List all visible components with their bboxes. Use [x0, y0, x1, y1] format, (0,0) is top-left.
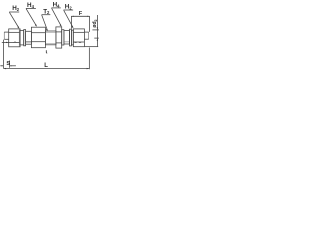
underline H2 right	[64, 9, 74, 11]
right neck	[64, 31, 70, 44]
dim L ext right	[88, 48, 90, 70]
dim F ext right	[89, 16, 91, 32]
dim arrow at nut face	[2, 41, 9, 43]
label H4 right	[53, 2, 61, 9]
svg-text:L: L	[44, 63, 48, 69]
dim S ext left / L ext left	[2, 40, 4, 69]
underline H4 left	[26, 7, 36, 9]
dim od vertical line	[96, 15, 98, 47]
ext nut bottom right	[85, 46, 99, 48]
dim S ext right	[9, 61, 11, 68]
left nut	[9, 29, 20, 47]
leader H4 left	[26, 9, 36, 26]
dim L line	[3, 68, 89, 70]
underline H2 left	[9, 11, 19, 13]
dim od ext bottom	[94, 37, 99, 39]
left stub	[4, 31, 9, 33]
svg-text:S: S	[6, 61, 10, 67]
locknut	[56, 27, 62, 48]
underline T2	[42, 14, 51, 16]
right ring	[62, 30, 64, 45]
center hex body	[31, 27, 45, 48]
label H4 left	[27, 2, 35, 9]
dim F ext left	[70, 16, 72, 29]
label H2 left	[12, 5, 20, 12]
label od2 rotated	[92, 19, 98, 27]
dim F line	[72, 15, 90, 17]
right stub	[84, 31, 88, 33]
label F	[79, 11, 83, 17]
label S	[6, 61, 10, 67]
thread section	[45, 31, 56, 45]
left sleeve	[20, 31, 24, 45]
svg-text:H4: H4	[53, 2, 61, 9]
right sleeve	[71, 30, 73, 45]
leader H4 right	[52, 8, 61, 25]
left collar	[24, 30, 26, 46]
svg-text:H4: H4	[27, 2, 35, 9]
right collar	[70, 29, 72, 46]
underline H4 right	[51, 7, 60, 9]
label T2	[43, 8, 50, 15]
mystery mark under hex	[45, 50, 48, 53]
dim S arrows	[0, 65, 3, 67]
leader T2	[42, 15, 48, 30]
label H2 right	[65, 4, 73, 11]
label L	[44, 63, 48, 69]
left neck	[26, 31, 32, 44]
svg-text:H2: H2	[65, 4, 73, 11]
svg-text:H2: H2	[12, 5, 20, 12]
dim od ext top	[92, 29, 98, 31]
leader H2 right	[64, 10, 73, 27]
right nut	[73, 29, 84, 47]
leader H2 left	[9, 12, 19, 28]
